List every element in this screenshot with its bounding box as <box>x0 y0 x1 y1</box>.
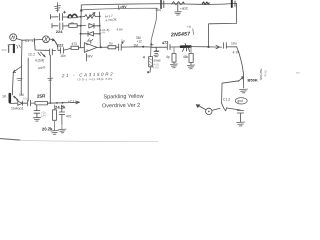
resistor R11 dark <box>9 94 12 102</box>
wire op-amp input <box>64 48 71 50</box>
capacitor C6 473 series <box>151 44 181 49</box>
op-amp U1 <box>84 43 97 53</box>
capacitor C-B row B <box>60 23 63 30</box>
wire to node V2 <box>94 25 100 27</box>
svg-text:4.8V: 4.8V <box>117 28 124 32</box>
svg-text:10u: 10u <box>155 8 161 12</box>
wire <box>63 16 68 18</box>
svg-text:1M: 1M <box>134 44 139 48</box>
resistor R6 to ground <box>189 54 193 63</box>
diode D5 on wire <box>18 101 27 105</box>
wire <box>77 25 85 27</box>
ground G9 drop <box>177 5 179 12</box>
svg-text:16V: 16V <box>41 114 46 118</box>
svg-text:20.2k: 20.2k <box>42 126 53 131</box>
capacitor C12 to ground <box>34 105 40 117</box>
cap tick on vertical <box>17 78 22 80</box>
svg-text:24.2k: 24.2k <box>55 104 66 109</box>
wire <box>79 47 84 49</box>
wire with arrow to output cap <box>209 45 222 48</box>
pot P2 50K box <box>149 57 153 67</box>
arrow on V1 <box>80 9 82 11</box>
svg-text:10u: 10u <box>23 97 28 101</box>
svg-text:473: 473 <box>72 42 78 46</box>
oval gnd <box>235 98 247 104</box>
capacitor C7 series <box>224 43 227 49</box>
trimmer resistor R-A zigzag with arrow <box>85 15 96 19</box>
input shunt resistor R1 dark (two bars) <box>8 43 15 46</box>
+9V tick <box>118 6 120 10</box>
arrow A1 out <box>196 105 205 110</box>
second rail wire <box>82 8 158 10</box>
diode D1 right <box>89 23 94 28</box>
capacitor C8 to ground <box>227 108 244 122</box>
svg-text:9Vdc: 9Vdc <box>264 70 268 78</box>
node stub under J2 <box>34 40 46 50</box>
ground G7 under pot <box>240 89 248 93</box>
diode D2 left (lower) <box>88 31 94 36</box>
ground G8 <box>237 122 245 126</box>
wire <box>143 46 152 48</box>
bottom-left scan line <box>0 139 20 141</box>
wire to node <box>191 46 209 48</box>
svg-text:473: 473 <box>162 41 169 45</box>
diagonal branch with arrow <box>13 67 21 73</box>
svg-text:1N4oo1: 1N4oo1 <box>11 106 24 110</box>
wire <box>63 25 69 27</box>
vertical from IN junction down <box>20 40 23 95</box>
wire down x28 <box>27 58 29 101</box>
vertical net V3 from second rail corner to pot <box>151 8 157 56</box>
switch arrow S1 <box>38 52 45 57</box>
svg-text:16n: 16n <box>60 54 66 58</box>
resistor R5 to ground <box>172 54 176 63</box>
transistor hump Q-A (dark double bump) <box>68 14 77 17</box>
+9V supply rail (top) <box>81 3 236 5</box>
resistor R10 small dark zigzag <box>202 2 209 4</box>
svg-text:+9: +9 <box>87 39 91 43</box>
wire <box>78 16 85 18</box>
svg-text:+12: +12 <box>137 39 143 43</box>
wire to mid node <box>121 46 143 48</box>
vertical net V2 x=99.5 <box>99 12 102 47</box>
wire to right with junctions <box>48 101 80 104</box>
svg-text:4p: 4p <box>166 55 170 59</box>
svg-text:+9V: +9V <box>120 5 127 9</box>
capacitor C11 <box>28 100 35 106</box>
capacitor C13 <box>59 105 64 124</box>
diode D4 <box>14 96 19 101</box>
wire to node V2 <box>96 15 100 17</box>
pot P1 B50K <box>242 73 244 88</box>
capacitor C9 10u on rail <box>160 0 162 8</box>
capacitor C2 <box>46 49 56 55</box>
resistor R13 vertical <box>53 110 57 121</box>
svg-text:1C.2: 1C.2 <box>28 53 35 57</box>
ground G12 <box>33 117 40 121</box>
capacitor C4 <box>116 42 124 51</box>
svg-text:400: 400 <box>2 48 7 52</box>
wire from IN <box>17 39 43 41</box>
svg-text:222: 222 <box>57 42 64 47</box>
ground G14 <box>59 129 66 133</box>
diode D3 arrow after node <box>50 39 55 41</box>
svg-text:+7.1: +7.1 <box>68 99 75 103</box>
svg-text:C1.2: C1.2 <box>223 98 230 102</box>
svg-text:C1 .1: C1 .1 <box>25 39 33 43</box>
svg-text:1u: 1u <box>121 39 125 43</box>
svg-text:B50K: B50K <box>248 78 258 83</box>
svg-text:SW(1M): SW(1M) <box>259 69 263 80</box>
rail return path down-left-down <box>208 3 236 47</box>
svg-text:470: 470 <box>66 114 72 118</box>
svg-text:1K: 1K <box>2 95 7 99</box>
arrow A2 <box>76 101 80 104</box>
svg-text:+9DC: +9DC <box>180 6 189 11</box>
output wire <box>97 46 108 48</box>
resistor R3 box <box>71 46 79 49</box>
wire row B left stub <box>52 24 58 29</box>
wire row A left stub <box>51 15 59 20</box>
input circle node J2 <box>43 36 50 43</box>
resistor R-B box <box>69 24 77 28</box>
svg-text:224: 224 <box>56 29 63 34</box>
svg-text:46k: 46k <box>183 55 189 59</box>
capacitor C10 dark on rail <box>231 1 233 8</box>
svg-text:Sparkling Yellow: Sparkling Yellow <box>103 94 143 101</box>
svg-text:4.5V: 4.5V <box>153 66 159 70</box>
svg-text:4.7k: 4.7k <box>233 50 240 54</box>
svg-text:4.(1M): 4.(1M) <box>35 59 44 63</box>
output jack J3 <box>206 108 212 114</box>
svg-text:+4: +4 <box>187 25 191 29</box>
wire D2 <box>81 33 100 35</box>
svg-text:25R: 25R <box>37 93 46 98</box>
resistor R9 zigzag on rail <box>172 2 185 5</box>
svg-text:Overdrive Ver 2: Overdrive Ver 2 <box>102 103 140 110</box>
ground G13 <box>51 131 59 135</box>
svg-text:nel: nel <box>102 31 106 35</box>
ground G6 right of pot <box>239 85 245 87</box>
svg-text:(0.5~) r+(1.08)k 4.8V: (0.5~) r+(1.08)k 4.8V <box>77 77 112 82</box>
svg-text:a.e: a.e <box>296 71 300 75</box>
tick on x50 vertical <box>48 78 53 80</box>
svg-text:2N5457: 2N5457 <box>170 31 192 38</box>
wire diagonal to pot <box>226 47 243 73</box>
wiper wire to output <box>222 81 239 103</box>
vertical net V1 x=80.5 <box>80 5 83 48</box>
svg-text:0u: 0u <box>109 42 113 46</box>
svg-text:gnd: gnd <box>237 99 243 103</box>
junction tick mid <box>150 43 153 46</box>
IN jack J1 circle <box>10 34 17 41</box>
junction dots feedback <box>80 16 101 35</box>
svg-text:MV: MV <box>88 55 94 59</box>
svg-text:460: 460 <box>154 49 159 53</box>
JFET Q1 2N5457 dark <box>181 45 191 48</box>
ground G5 <box>154 55 159 57</box>
capacitor C3 222 series <box>54 40 63 53</box>
capacitor C5 to ground mid <box>154 47 159 53</box>
resistor R4 box <box>108 46 116 49</box>
resistor R12 25R box <box>35 102 48 105</box>
svg-text:10u: 10u <box>231 41 237 45</box>
ground G0 top-left <box>55 3 61 13</box>
capacitor C-A row A <box>60 11 66 20</box>
